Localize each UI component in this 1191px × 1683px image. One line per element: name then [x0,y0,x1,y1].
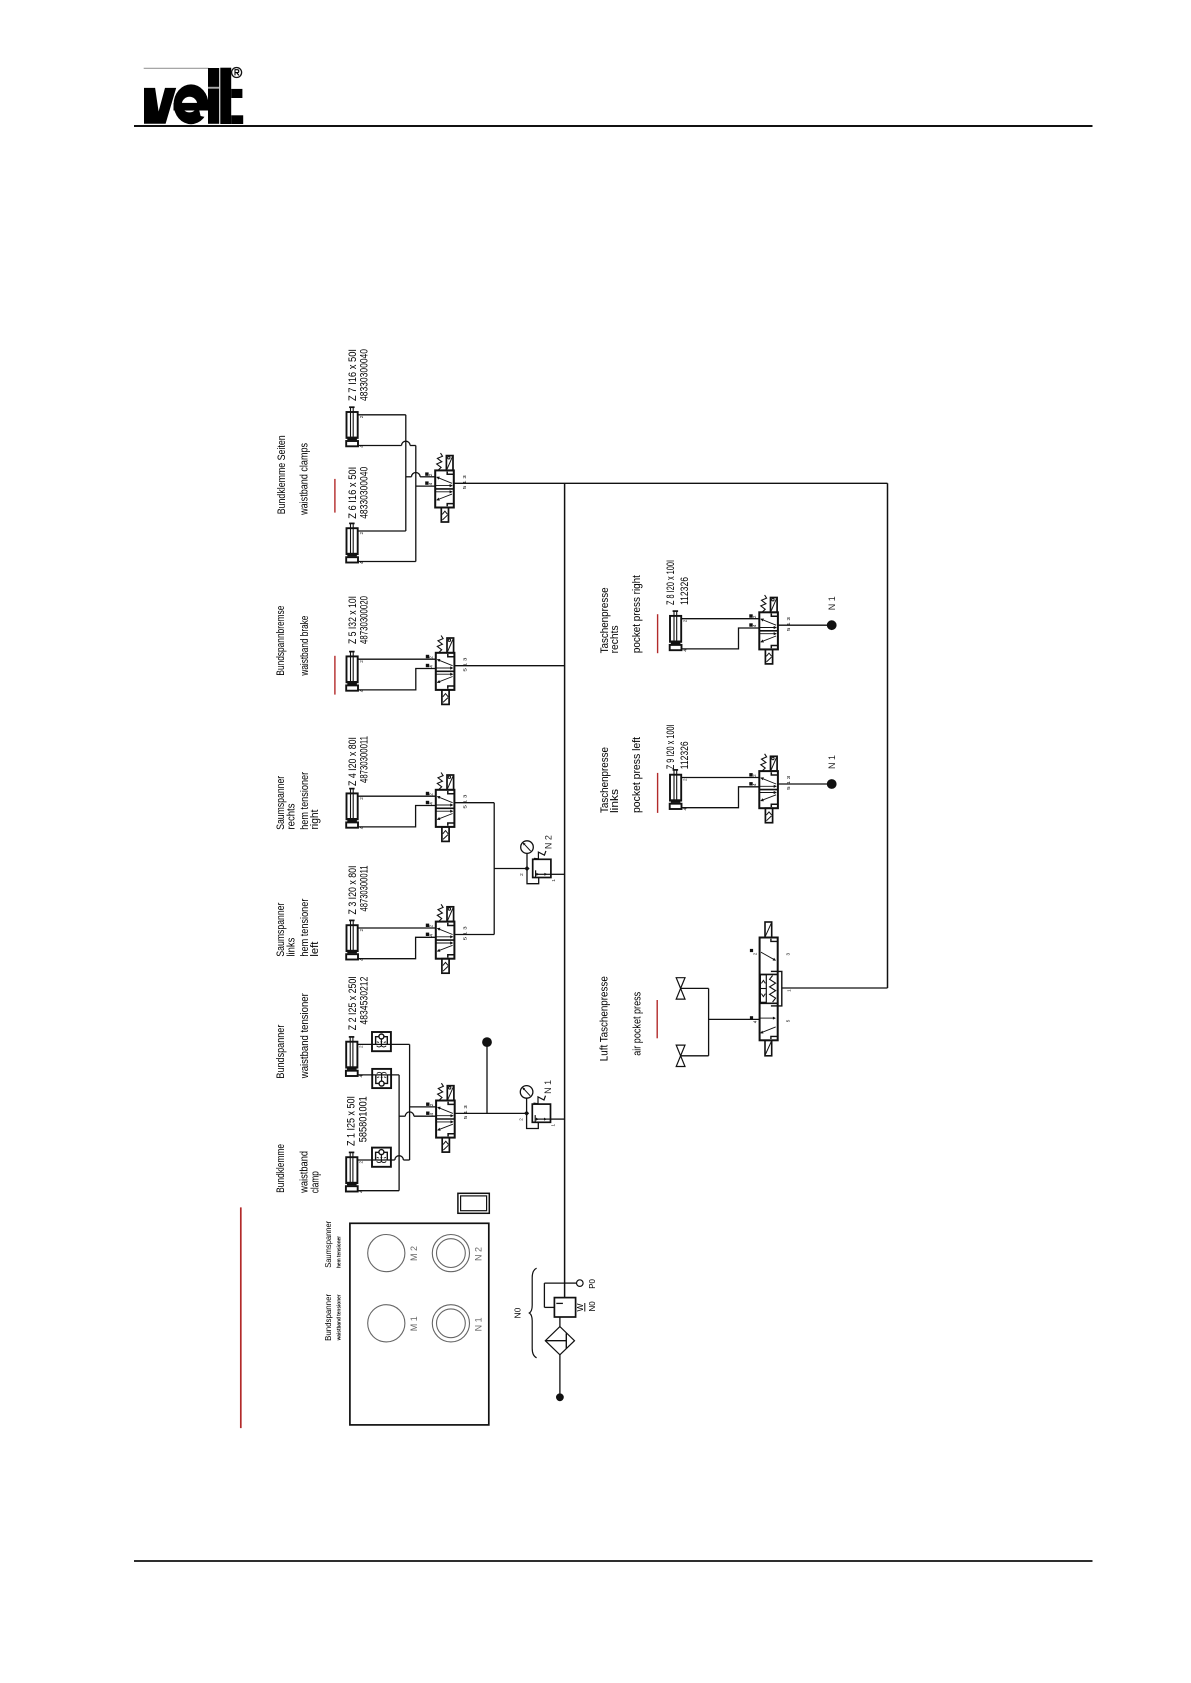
svg-text:2: 2 [359,1045,364,1048]
pressure regulator N1 [532,1104,550,1122]
svg-text:air pocket press: air pocket press [632,991,644,1055]
cylinder Z3 [350,920,352,950]
pressure regulator N2 [533,859,551,877]
svg-text:Z 9 I20 x 100I: Z 9 I20 x 100I [665,724,677,769]
svg-text:112326: 112326 [679,741,691,769]
wire V4 output [454,934,494,936]
svg-text:pocket press right: pocket press right [631,575,643,653]
wire nozzle manifold vertical [708,988,710,1055]
svg-text:4: 4 [752,624,757,627]
svg-text:N 1: N 1 [827,596,837,610]
svg-text:2: 2 [429,793,434,796]
svg-text:5: 5 [785,1019,790,1022]
svg-text:48330300040: 48330300040 [359,349,371,401]
manifold circle N1 [432,1305,469,1342]
svg-text:4834530212: 4834530212 [358,977,370,1025]
veit logo letter t [220,68,231,124]
svg-text:N 1: N 1 [543,1080,553,1094]
svg-text:rechts: rechts [609,625,621,653]
svg-text:2: 2 [752,774,757,777]
cylinder Z1 [349,1152,351,1182]
wire V5 output [455,1112,527,1114]
header rule [134,125,1093,127]
wire to regulator N2 [494,868,527,870]
svg-text:N 1: N 1 [474,1317,484,1331]
svg-text:5 1 3: 5 1 3 [462,475,467,490]
cylinder Z8 [673,611,675,641]
wire Z3 port2 [358,927,436,929]
svg-text:2: 2 [359,660,364,663]
svg-text:112326: 112326 [679,577,691,605]
svg-text:4: 4 [429,1113,434,1116]
red mark Luft Taschenpresse [656,1000,658,1038]
footer rule [134,1560,1093,1562]
cylinder Z5 [350,652,352,682]
svg-text:waistband: waistband [298,1151,310,1194]
wire N1 output to rail [551,1118,565,1120]
svg-text:Luft Taschenpresse: Luft Taschenpresse [598,976,610,1061]
svg-text:3: 3 [785,953,790,956]
svg-text:M 2: M 2 [409,1246,419,1261]
manifold circle M1 [368,1305,405,1342]
veit logo letter v [144,88,176,124]
wire Z4 port4 [358,806,436,827]
wire node B vertical x415 [415,446,417,562]
wire box to filter [559,1317,561,1327]
svg-text:waistband clamps: waistband clamps [299,442,311,515]
red mark Bundklemme Seiten [334,479,336,513]
wire V8 output [782,987,888,989]
flow control FC2 [372,1069,391,1088]
valve V5 waistband tensioner [436,1101,455,1138]
supply rail main vertical [564,483,566,1297]
flow control FC1 [372,1032,391,1051]
svg-text:waistband tensioner: waistband tensioner [299,993,311,1079]
svg-text:pocket press left: pocket press left [631,737,643,813]
veit logo letter i [208,68,219,124]
svg-text:4: 4 [428,482,433,485]
valve V4 hem tensioner left [436,922,455,959]
terminal N1 right [827,621,836,630]
svg-text:2: 2 [359,415,364,418]
svg-text:2: 2 [682,778,687,781]
svg-text:rechts: rechts [286,803,298,829]
red rule left section [240,1207,242,1428]
wire filter to inlet terminal [559,1355,561,1395]
manifold circle M2 [368,1235,405,1272]
cylinder Z4 [350,789,352,819]
svg-text:2: 2 [359,929,364,932]
wire N2 output to rail [551,873,565,875]
wire Z7 port2 to node [358,414,406,416]
svg-text:5 1 3: 5 1 3 [786,616,791,631]
svg-text:5 1 3: 5 1 3 [463,657,468,672]
svg-text:5 1 3: 5 1 3 [463,1105,468,1120]
svg-text:2: 2 [682,619,687,622]
wire Z4 port2 [358,795,436,797]
wire V1 output to supply rail [454,482,888,484]
valve V7 pocket press left [759,771,778,808]
wire Z2 port2 through FC1 to node D [357,1043,409,1045]
wire Z8 port4 [681,628,759,649]
svg-text:N0: N0 [512,1307,522,1318]
nozzle top air pocket press [676,978,685,989]
svg-text:Saumspanner: Saumspanner [324,1221,333,1268]
svg-text:1: 1 [551,879,556,882]
valve V6 pocket press right [759,612,778,649]
svg-text:48330300040: 48330300040 [359,467,371,519]
wire V3 output [454,802,494,804]
svg-text:48730300011: 48730300011 [359,866,371,912]
svg-text:4: 4 [429,665,434,668]
filter separator diamond [545,1327,574,1355]
svg-text:Z 3 I20 x 80I: Z 3 I20 x 80I [347,866,359,915]
svg-text:M 1: M 1 [409,1316,419,1331]
wire V5 port2 [410,1106,437,1108]
svg-text:clamp: clamp [310,1171,322,1193]
svg-text:Z 1 I25 x 50I: Z 1 I25 x 50I [346,1096,358,1146]
svg-text:P0: P0 [588,1278,597,1288]
svg-text:Z 5 I32 x 10I: Z 5 I32 x 10I [347,596,359,644]
wire to valve V8 [709,1018,760,1020]
svg-text:48730300020: 48730300020 [359,596,371,644]
terminal N1 left [827,780,836,789]
cylinder Z7 [350,407,352,437]
svg-text:585801001: 585801001 [358,1096,370,1142]
svg-text:2: 2 [359,797,364,800]
wire Z9 port2 [681,777,759,779]
svg-text:1: 1 [787,989,792,992]
svg-text:2: 2 [429,924,434,927]
svg-text:Z 8 I20 x 100I: Z 8 I20 x 100I [665,560,677,605]
svg-text:Bundklemme: Bundklemme [275,1144,287,1193]
svg-text:5 1 3: 5 1 3 [463,794,468,809]
svg-text:Bundspanner: Bundspanner [324,1294,333,1341]
svg-text:N0: N0 [588,1301,597,1312]
valve V8 air pocket press [760,938,778,1041]
veit logo thin top line [144,67,209,69]
svg-text:Z 7 I16 x 50I: Z 7 I16 x 50I [347,349,359,401]
air inlet terminal [557,1394,564,1401]
terminal node plug [483,1038,492,1047]
wire V1 port4 [416,485,435,487]
svg-text:Bundspannbremse: Bundspannbremse [275,606,287,676]
valve V3 hem tensioner right [436,790,455,827]
svg-text:Bundspanner: Bundspanner [275,1024,287,1078]
valve V2 waistband brake [436,653,455,690]
red mark Taschenpresse links [657,773,659,813]
small double rectangle [458,1193,489,1213]
service unit box N0 [554,1298,575,1317]
svg-text:waistband tensioner: waistband tensioner [337,1294,343,1342]
red mark Bundspannbremse [334,656,336,695]
manifold circle N2 [432,1235,469,1272]
svg-text:2: 2 [752,615,757,618]
cylinder Z9 [673,770,675,800]
wire Z6 port4 [358,561,416,563]
brace N0 group [529,1268,536,1358]
wire nozzle top [681,987,709,989]
svg-text:2: 2 [428,473,433,476]
red mark Taschenpresse rechts [657,614,659,653]
wire node D vertical x409 [409,1044,411,1160]
wire FC3 output with hop [391,1159,395,1161]
svg-text:2: 2 [359,532,364,535]
wire Z5 port2 [358,658,436,660]
wire node E vertical x399 [398,1075,400,1191]
wire V7 output to N1 terminal [778,783,828,785]
wire Z5 port4 [358,669,436,690]
wire Z7 port4 with hop [358,445,402,447]
svg-text:N 2: N 2 [474,1247,484,1261]
manifold box [350,1223,489,1425]
wire Z9 port4 [681,787,759,808]
svg-text:2: 2 [519,873,524,876]
svg-text:waistband brake: waistband brake [299,616,311,677]
svg-text:Z 6 I16 x 50I: Z 6 I16 x 50I [347,467,359,519]
wire Z8 port2 [681,618,759,620]
svg-text:left: left [309,942,321,957]
svg-text:1: 1 [551,1124,556,1127]
svg-text:4: 4 [753,1020,758,1023]
wire V5 port4 with hop [399,1115,405,1117]
flow control FC3 [372,1148,391,1167]
wire Z2 port4 through FC2 to node E [357,1074,399,1076]
svg-text:Z 4 I20 x 80I: Z 4 I20 x 80I [347,737,359,786]
nozzle bottom air pocket press [676,1045,685,1056]
wire Z3 port4 [358,937,436,958]
wire V2 output [454,665,564,667]
wire node A vertical x405 [405,415,407,531]
wire nozzle bottom [681,1055,709,1057]
valve V1 waistband clamps [435,470,454,507]
svg-text:2: 2 [359,1161,364,1164]
wire node C vertical x494 [493,803,495,935]
veit logo letter e [174,84,209,124]
svg-text:5 1 3: 5 1 3 [786,775,791,790]
wire V6 output to N1 terminal [778,624,828,626]
svg-text:N 1: N 1 [827,755,837,769]
veit logo registered mark [232,68,242,78]
svg-text:links: links [286,937,298,956]
svg-text:4: 4 [429,934,434,937]
svg-text:2: 2 [429,656,434,659]
svg-text:48730300011: 48730300011 [359,736,371,783]
cylinder Z6 [350,523,352,553]
svg-text:4: 4 [429,802,434,805]
svg-text:W: W [575,1303,585,1311]
cylinder Z2 [349,1037,351,1067]
svg-text:2: 2 [519,1118,524,1121]
wire Z1 port2 through FC3 [357,1159,391,1161]
svg-text:N 2: N 2 [544,835,554,849]
supply rail right vertical [887,483,889,988]
svg-text:2: 2 [752,952,757,955]
wire V1 port2 with hop [406,476,412,478]
service unit bypass and gauge port P0 [544,1282,564,1284]
svg-text:hem tensioner: hem tensioner [337,1235,343,1268]
svg-text:2: 2 [429,1103,434,1106]
svg-text:right: right [309,810,321,830]
svg-text:links: links [609,788,621,813]
wire Z6 port2 [358,530,406,532]
svg-text:Bundklemme Seiten: Bundklemme Seiten [276,435,288,514]
svg-text:5 1 3: 5 1 3 [463,926,468,941]
wire Z1 port4 [357,1190,399,1192]
svg-text:4: 4 [752,783,757,786]
